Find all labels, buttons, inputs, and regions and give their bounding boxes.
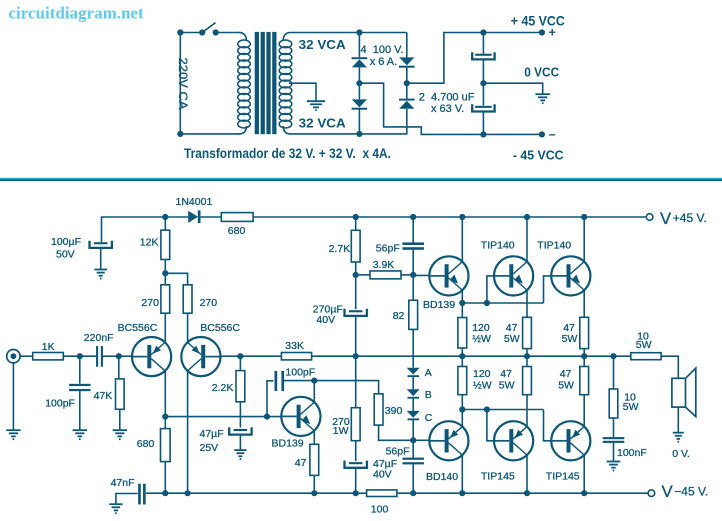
wire: riser to Q5 base: [487, 276, 494, 303]
diode C: [407, 411, 420, 418]
svg-text:33K: 33K: [285, 340, 304, 352]
capacitor 220nF: [80, 355, 96, 357]
resistor 47: [310, 444, 319, 475]
terminal V+45: [646, 214, 653, 221]
wire: Q5 emitter to 47 5W: [526, 290, 528, 317]
node: rail x527: [524, 214, 530, 220]
wire: 390 to BD140 base: [379, 425, 414, 440]
wire: 47 5W bot2 from output: [583, 356, 585, 366]
wire: Q7 collector to rail: [461, 455, 463, 493]
svg-text:47µF: 47µF: [200, 428, 224, 440]
wire: 47uF to rail: [355, 468, 357, 493]
node: Q3 collector: [311, 378, 317, 384]
ground: 0 VCC: [536, 94, 550, 103]
wire: 47 to Q8 emitter: [526, 395, 528, 427]
wire: Q8 collector to rail: [526, 455, 528, 493]
svg-text:BD139: BD139: [423, 299, 455, 311]
svg-text:47nF: 47nF: [111, 477, 135, 489]
node: rail Q8: [524, 490, 530, 496]
wire: D1-D2 junction: [358, 68, 360, 100]
wire: D1 column top: [358, 33, 360, 58]
wire: D2 to bottom rail: [358, 109, 360, 133]
wire: 47K to ground: [119, 409, 121, 430]
wire: 47nF to ground: [116, 494, 138, 504]
resistor 390: [374, 394, 383, 425]
wire: 47 to Q9 emitter: [583, 395, 585, 427]
wire: diode to 680: [201, 216, 222, 218]
transistor Q1 BC556C: [132, 337, 171, 376]
resistor 680 (top): [221, 213, 253, 222]
wire: Q1 collector down: [164, 371, 166, 417]
svg-text:100pF: 100pF: [45, 398, 75, 410]
transformer T1 core: [255, 32, 259, 134]
svg-text:4 100 V.: 4 100 V.: [361, 44, 404, 56]
node: Q4 emitter: [459, 300, 465, 306]
capacitor 270uF 40V: [349, 310, 363, 312]
wire: 220nF to node: [103, 355, 119, 357]
wire: D3-D4 junction: [406, 68, 408, 99]
svg-text:5W: 5W: [499, 380, 515, 392]
diode D4 (bottom-right, cathode up): [399, 99, 415, 101]
diode B: [407, 389, 420, 396]
node: +45 terminal: [539, 29, 545, 35]
svg-text:32 VCA: 32 VCA: [299, 116, 346, 131]
svg-text:−45 V.: −45 V.: [674, 485, 708, 499]
resistor 47 5W top2: [580, 317, 589, 348]
wire: A-B: [412, 377, 414, 389]
wire: Q6 emitter to 47 5W: [583, 290, 585, 317]
node: rail Q7: [459, 490, 465, 496]
svg-text:2.2K: 2.2K: [212, 382, 234, 394]
resistor 47 5W bot1: [523, 367, 532, 395]
wire: Q1 collector to BD139 base: [165, 416, 281, 418]
node: BD139 base node: [410, 272, 416, 278]
resistor 47 5W top1: [523, 317, 532, 348]
wire: C1 to 0V node: [482, 60, 484, 106]
node: -45 terminal: [539, 131, 545, 137]
node: rail x462: [459, 214, 465, 220]
svg-text:680: 680: [228, 225, 246, 237]
capacitor 100pF (comp): [275, 371, 278, 391]
transistor Q4 BD139 (driver top): [429, 256, 468, 295]
capacitor 100nF: [603, 437, 625, 439]
node: rail x584: [581, 214, 587, 220]
wire: 100pF right to collector node: [284, 380, 315, 382]
wire: Q2 base to 33K: [221, 355, 282, 357]
svg-text:100: 100: [371, 504, 389, 516]
wire: 680 to rail: [164, 462, 166, 494]
wire: output rail: [312, 355, 631, 357]
diode D3 (top-right, cathode down): [399, 57, 414, 65]
node: right diodes junction (+ output): [404, 80, 410, 86]
svg-text:+45 V.: +45 V.: [673, 211, 707, 225]
node: C2 bottom: [480, 131, 486, 137]
svg-text:5W: 5W: [636, 339, 652, 351]
svg-text:32 VCA: 32 VCA: [299, 37, 346, 52]
node: rail 56pF: [410, 490, 416, 496]
node: capacitors midpoint: [480, 80, 486, 86]
svg-text:47: 47: [560, 368, 572, 380]
svg-text:TIP140: TIP140: [537, 240, 571, 252]
capacitor 100pF input: [79, 356, 81, 384]
svg-text:100nF: 100nF: [617, 447, 647, 459]
resistor 47 5W bot2: [580, 367, 589, 395]
resistor 47K: [118, 356, 120, 379]
ground: 47nF: [109, 504, 122, 513]
wire: Q3 emitter to 47: [313, 431, 315, 444]
wire: riser to Q6 base: [544, 276, 551, 303]
svg-text:100µF: 100µF: [51, 236, 81, 248]
resistor 100: [367, 490, 397, 497]
node: bottom rail left column: [356, 131, 362, 137]
ground: input jack: [6, 430, 20, 439]
diode D1 (top-left, cathode up): [352, 57, 368, 59]
wire: 120 to output: [461, 348, 463, 356]
svg-text:A: A: [425, 367, 432, 379]
input jack: [7, 350, 20, 363]
svg-text:TIP145: TIP145: [546, 470, 580, 482]
transistor Q2 BC556C (mirrored): [181, 337, 220, 376]
transistor Q8 TIP145: [494, 421, 533, 460]
transistor Q9 TIP145: [551, 421, 590, 460]
node: top of diode column D1: [356, 29, 362, 35]
node: rail Q9: [581, 490, 587, 496]
ground: 100uF: [94, 270, 107, 279]
wire: C to node: [412, 420, 414, 440]
wire: B-C: [412, 399, 414, 411]
wire: jack to ground: [12, 363, 14, 430]
wire: 0 VCC to ground: [483, 83, 542, 93]
wire: secondary top to rectifier: [291, 32, 407, 34]
node: rail 47uF: [353, 490, 359, 496]
svg-text:2.7K: 2.7K: [329, 243, 351, 255]
svg-text:circuitdiagram.net: circuitdiagram.net: [9, 4, 145, 23]
wire: 82 to diode A (crosses output rail): [412, 329, 414, 367]
svg-text:82: 82: [393, 310, 405, 322]
node: output x462: [459, 353, 465, 359]
wire: D4 to bottom rail: [406, 109, 408, 134]
node: Q7 emitter tap: [459, 406, 465, 412]
node: 270s top: [162, 270, 168, 276]
wire: node to 1N4001: [165, 216, 188, 218]
transformer T1 secondary winding: [283, 33, 290, 42]
capacitor 47uF 40V: [349, 462, 363, 464]
wire: 100pF to ground: [79, 391, 81, 430]
wire: 47 to output: [526, 349, 528, 357]
svg-text:390: 390: [385, 405, 403, 417]
resistor 270 left: [161, 285, 170, 313]
svg-text:BD140: BD140: [426, 471, 458, 483]
terminal V-45: [648, 490, 655, 497]
wire: 2.7K to node: [355, 262, 357, 309]
diode A: [407, 368, 420, 375]
transistor Q3 BD139 (driver low): [281, 397, 320, 436]
svg-text:270: 270: [141, 297, 159, 309]
svg-text:56pF: 56pF: [376, 242, 400, 254]
node: rail 47: [311, 490, 317, 496]
wire: drop to Q9 base: [544, 410, 551, 441]
resistor 10 5W series: [631, 353, 661, 360]
wire: Q6 collector to rail: [583, 217, 585, 261]
wire: base bus top row: [462, 302, 543, 304]
svg-text:V: V: [662, 482, 674, 501]
wire: switch to transformer: [216, 32, 241, 34]
capacitor C2 4700uF bottom: [475, 106, 492, 108]
transistor Q6 TIP140: [551, 256, 590, 295]
wire: 47uF to ground: [239, 435, 241, 450]
wire: 1K to node: [63, 355, 80, 357]
node: 2.2K tap: [237, 353, 243, 359]
svg-text:½W: ½W: [473, 380, 492, 392]
wire: 270L to Q1 emitter: [164, 313, 166, 342]
svg-text:+ 45 VCC: + 45 VCC: [511, 13, 565, 28]
wire: bias node to Q4 base: [413, 274, 429, 276]
wire: 2.2K to cap (crosses base wire): [239, 402, 241, 428]
wire: primary left side: [179, 33, 181, 134]
svg-text:1W: 1W: [333, 425, 349, 437]
svg-text:5W: 5W: [623, 401, 639, 413]
node: C1 top: [480, 29, 486, 35]
svg-text:Transformador de 32 V. + 32 V.: Transformador de 32 V. + 32 V. x 4A.: [184, 146, 391, 161]
wire: V- rail left: [146, 492, 367, 494]
wire: Q9 collector to rail: [583, 455, 585, 493]
wire: Q5 collector to rail: [526, 217, 528, 261]
speaker: [672, 378, 686, 407]
node: left diodes junction: [356, 80, 362, 86]
wire: 220V primary top: [180, 32, 202, 34]
node: BD140 base node: [410, 437, 416, 443]
svg-text:BC556C: BC556C: [118, 322, 158, 334]
wire: Q3 collector up: [313, 381, 315, 403]
node: output x584: [581, 353, 587, 359]
wire: 56pF to rail: [412, 465, 414, 494]
node: switch left: [177, 29, 183, 35]
svg-text:BC556C: BC556C: [200, 322, 240, 334]
wire: 270 1W to 47uF 40V: [355, 441, 357, 461]
wire: negative staircase from left junction: [359, 83, 542, 134]
ground: center tap: [307, 101, 325, 110]
svg-text:5W: 5W: [504, 333, 520, 345]
node: 100pF drop join: [264, 414, 270, 420]
resistor 1K: [33, 353, 64, 360]
capacitor 100uF 50V: [94, 242, 108, 244]
resistor 270 1W: [351, 408, 360, 441]
svg-text:½W: ½W: [472, 333, 491, 345]
svg-text:–: –: [549, 126, 556, 141]
svg-text:25V: 25V: [200, 442, 219, 454]
wire: cap to ground: [100, 248, 102, 269]
wire: 120 to node: [461, 395, 463, 410]
resistor 2.7K: [355, 217, 357, 230]
svg-text:56pF: 56pF: [386, 446, 410, 458]
svg-text:x 6 A.: x 6 A.: [370, 56, 398, 68]
wire: V+ rail to terminal: [253, 216, 646, 218]
section divider line: [0, 178, 722, 180]
svg-text:2 4.700 uF: 2 4.700 uF: [419, 91, 475, 103]
svg-text:120: 120: [473, 368, 491, 380]
wire: 47 5W bot1 from output: [526, 356, 528, 366]
svg-text:1N4001: 1N4001: [176, 196, 213, 208]
wire: collector node to 390: [314, 381, 378, 394]
node: 100pF tap: [77, 353, 83, 359]
capacitor 56pF bottom: [412, 440, 414, 458]
wire: node to BD140 base: [413, 439, 429, 441]
node: rail 680: [162, 490, 168, 496]
node: output x613: [610, 353, 616, 359]
resistor 3.9K: [356, 274, 370, 276]
resistor 680 (bottom): [164, 417, 166, 429]
resistor 120 half-W top: [461, 303, 463, 318]
node: Q1 collector / feedback: [162, 414, 168, 420]
transistor Q5 TIP140: [494, 256, 533, 295]
svg-text:1K: 1K: [42, 341, 55, 353]
resistor 10 5W vertical: [613, 356, 615, 389]
capacitor 47uF 25V: [234, 429, 248, 431]
wire: 56pF to node: [412, 250, 414, 275]
wire: 270uF to output: [355, 316, 357, 356]
node: TIP145 No1 base tap: [484, 406, 490, 412]
svg-text:5W: 5W: [562, 333, 578, 345]
wire: drop to Q8 base: [487, 410, 494, 441]
wire: D3 column from top wire: [406, 33, 408, 58]
wire: 10 5W to speaker: [661, 356, 678, 378]
svg-text:B: B: [425, 389, 432, 401]
resistor 270 right: [183, 285, 192, 313]
wire: + output to top rail: [407, 33, 542, 84]
svg-text:40V: 40V: [373, 468, 392, 480]
svg-text:47: 47: [500, 368, 512, 380]
transistor Q7 BD140: [429, 421, 468, 460]
svg-text:x 63 V.: x 63 V.: [431, 103, 464, 115]
wire: Q2 collector down: [187, 371, 189, 493]
node: 47K tap: [116, 353, 122, 359]
wire: 12K to node: [164, 260, 166, 285]
ground: speaker: [673, 433, 684, 442]
transformer T1 primary winding: [239, 33, 246, 42]
node: rail x356: [353, 214, 359, 220]
wire: Q4 emitter down: [461, 290, 463, 303]
wire: 100nF to ground: [613, 443, 615, 461]
svg-text:3.9K: 3.9K: [373, 259, 395, 271]
switch S1: [202, 23, 215, 33]
svg-text:220nF: 220nF: [84, 332, 114, 344]
svg-text:50V: 50V: [56, 248, 75, 260]
svg-text:680: 680: [137, 438, 155, 450]
svg-text:0 V.: 0 V.: [672, 448, 690, 460]
wire: secondary bottom to right diode column: [291, 133, 408, 135]
wire: node to Q7 emitter: [461, 410, 463, 427]
ground: 100pF: [73, 430, 87, 439]
resistor 2.2K: [239, 356, 241, 370]
resistor 12K: [164, 217, 166, 230]
node: switch pivot: [199, 29, 205, 35]
wire: secondary center tap: [289, 83, 316, 101]
wire: 10 to 100nF: [613, 418, 615, 437]
wire: V- rail right: [397, 492, 648, 494]
svg-text:47: 47: [295, 457, 307, 469]
resistor 82: [412, 275, 414, 300]
capacitor 47nF: [138, 484, 141, 505]
ground: zobel: [607, 462, 621, 471]
node: TIP140 No1 base tap: [484, 300, 490, 306]
node: output x527: [524, 353, 530, 359]
wire: jack to 1K: [20, 355, 33, 357]
node: 12K top: [162, 214, 168, 220]
svg-text:C: C: [425, 412, 433, 424]
svg-text:100pF: 100pF: [285, 366, 315, 378]
wire: 270R to Q2 emitter: [187, 313, 189, 342]
svg-text:270: 270: [200, 297, 218, 309]
node: 3.9K left: [353, 272, 359, 278]
wire: right 270 top link: [165, 273, 187, 285]
svg-text:5W: 5W: [558, 380, 574, 392]
wire: V+ rail left corner to 100uF: [102, 217, 166, 242]
svg-text:TIP140: TIP140: [481, 240, 515, 252]
wire: 47 to output 2: [583, 349, 585, 357]
node: switch right: [213, 29, 219, 35]
capacitor 56pF top: [412, 217, 414, 243]
svg-text:47K: 47K: [94, 390, 113, 402]
svg-text:BD139: BD139: [272, 437, 304, 449]
wire: output to 270 1W: [355, 356, 357, 408]
node: output x356: [353, 353, 359, 359]
resistor 120 half-W bottom: [461, 356, 463, 366]
svg-text:12K: 12K: [140, 237, 159, 249]
wire: base bus bottom row: [462, 409, 543, 411]
wire: node to Q1 base: [119, 355, 132, 357]
ground: 47K: [113, 430, 127, 439]
diode 1N4001: [188, 211, 198, 223]
wire: Q4 collector to rail: [461, 217, 463, 261]
node: rail Q2: [185, 490, 191, 496]
svg-text:40V: 40V: [316, 314, 335, 326]
wire: primary bottom: [180, 133, 240, 135]
svg-text:TIP145: TIP145: [481, 470, 515, 482]
diode D2 (bottom-left, cathode down): [352, 99, 367, 107]
node: primary bottom-left: [177, 131, 183, 137]
wire: 3.9K to node: [401, 274, 413, 276]
wire: speaker to ground: [677, 407, 679, 432]
wire: 47 to rail: [313, 475, 315, 493]
ground: 47uF 25V: [234, 450, 246, 459]
resistor 33K: [281, 353, 311, 360]
svg-text:V: V: [660, 209, 672, 228]
node: rail x413: [410, 214, 416, 220]
svg-text:220V CA: 220V CA: [176, 58, 188, 110]
svg-text:0 VCC: 0 VCC: [524, 65, 559, 80]
svg-text:- 45 VCC: - 45 VCC: [513, 147, 564, 162]
wire: 100pF left to base wire: [267, 381, 273, 417]
